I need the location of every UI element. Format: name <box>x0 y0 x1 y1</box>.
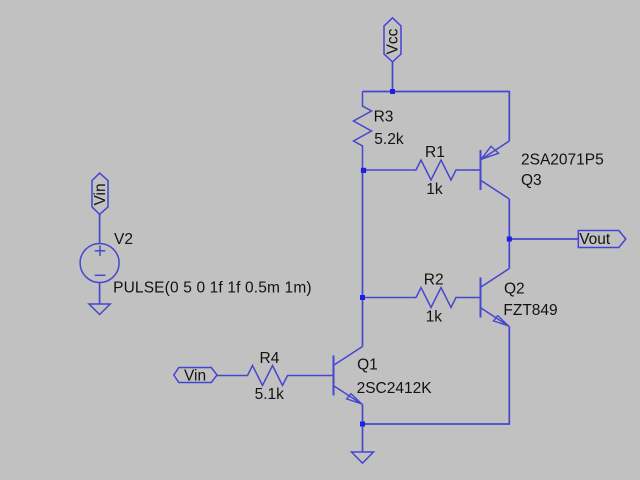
label Q2 name <box>504 281 525 298</box>
label R2 name <box>424 271 444 288</box>
resistor R4 <box>217 366 333 386</box>
wire Q1 emitter to ground node <box>362 405 364 425</box>
svg-text:2SA2071P5: 2SA2071P5 <box>521 151 604 168</box>
svg-text:R1: R1 <box>425 144 445 161</box>
label Q1 name <box>357 357 378 374</box>
svg-text:Q1: Q1 <box>357 357 378 374</box>
junction at ground node <box>360 422 365 427</box>
svg-text:PULSE(0 5 0 1f 1f 0.5m 1m): PULSE(0 5 0 1f 1f 0.5m 1m) <box>113 279 312 296</box>
svg-text:Q2: Q2 <box>504 281 525 298</box>
svg-text:5.1k: 5.1k <box>255 386 285 403</box>
wire Vout node to Vout port <box>509 238 578 240</box>
transistor Q3 (pnp) <box>481 141 510 199</box>
ground below V2 <box>89 304 110 315</box>
svg-text:Vout: Vout <box>579 231 611 248</box>
wire Q3 collector to Q2 collector (Vout rail) <box>508 199 510 269</box>
label R4 value 5.1k <box>255 386 285 403</box>
wire Vin port to V2 top <box>99 214 101 243</box>
svg-text:V2: V2 <box>114 231 133 248</box>
port Vout <box>578 231 626 248</box>
resistor R3 <box>354 92 372 171</box>
wire Vcc stub <box>392 62 394 92</box>
label V2 name <box>114 231 133 248</box>
svg-text:2SC2412K: 2SC2412K <box>357 380 433 397</box>
transistor Q1 (npn) <box>334 347 363 405</box>
wire left rail (R3 bottom node to Q1 collector) <box>362 170 364 347</box>
label R1 value 1k <box>426 181 443 198</box>
svg-text:R3: R3 <box>374 109 394 126</box>
label R1 name <box>425 144 445 161</box>
junction at R3/R1 node <box>361 168 366 173</box>
svg-text:Vin: Vin <box>184 368 206 385</box>
svg-text:FZT849: FZT849 <box>503 302 557 319</box>
junction at Vout node <box>507 237 512 242</box>
label V2 value PULSE <box>113 279 312 296</box>
label R4 name <box>260 350 280 367</box>
resistor R1 <box>363 160 480 180</box>
svg-text:1k: 1k <box>426 309 443 326</box>
label Q3 value 2SA2071P5 <box>521 151 604 168</box>
svg-text:R4: R4 <box>260 350 280 367</box>
voltage source V2 <box>80 244 119 283</box>
svg-text:R2: R2 <box>424 271 444 288</box>
wire Q2 emitter to bottom rail <box>363 327 510 425</box>
junction at Vcc rail <box>390 89 395 94</box>
svg-text:1k: 1k <box>426 181 443 198</box>
wire ground stub below bottom rail <box>362 424 364 452</box>
label Q2 value FZT849 <box>503 302 557 319</box>
ground below bottom rail <box>352 452 374 463</box>
port Vcc <box>384 18 402 62</box>
label R2 value 1k <box>426 309 443 326</box>
label R3 value 5.2k <box>374 131 404 148</box>
label R3 name <box>374 109 394 126</box>
wire top rail Vcc net <box>363 92 510 142</box>
transistor Q2 (npn) <box>481 269 510 327</box>
label Q1 value 2SC2412K <box>357 380 433 397</box>
label Q3 name <box>521 172 542 189</box>
resistor R2 <box>363 288 480 308</box>
svg-text:Q3: Q3 <box>521 172 542 189</box>
port Vin (above V2) <box>92 173 109 214</box>
svg-text:5.2k: 5.2k <box>374 131 404 148</box>
junction at R2 node <box>360 295 365 300</box>
port Vin (left of R4) <box>174 368 217 385</box>
svg-text:Vin: Vin <box>92 183 109 205</box>
svg-text:Vcc: Vcc <box>385 28 402 54</box>
wire V2 bottom to ground <box>99 283 101 305</box>
